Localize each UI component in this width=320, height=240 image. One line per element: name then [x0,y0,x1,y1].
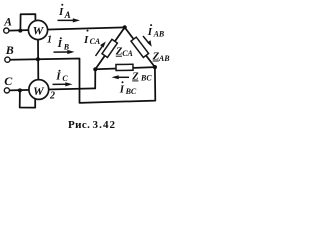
junction dot B voltage [36,57,40,61]
wattmeter W1 [28,20,47,39]
wire W2 voltage-coil bracket [20,90,36,107]
arrow I_A [58,18,81,22]
svg-text:B: B [63,42,70,51]
svg-text:W: W [33,24,45,38]
wire line C [10,88,96,90]
svg-text:I: I [147,26,153,38]
junction dot A bracket [18,29,22,33]
svg-text:3.42: 3.42 [93,119,117,131]
svg-text:I: I [58,6,64,18]
label I_CA [83,30,101,47]
svg-text:2: 2 [49,90,55,101]
label Z_CA [115,46,134,58]
svg-text:BC: BC [140,73,152,82]
arrow I_CA [96,42,106,57]
node B right vertex [153,65,157,69]
arrow I_B [54,50,75,54]
svg-text:CA: CA [90,37,101,46]
wire delta side BC [95,67,155,69]
wire voltage vertical W1-B-W2 [37,39,39,79]
node C left vertex [93,67,97,71]
svg-text:I: I [83,34,89,46]
wattmeter W2 [29,80,49,100]
svg-text:A: A [64,10,71,20]
svg-text:AB: AB [158,54,170,63]
svg-text:I: I [55,71,61,83]
junction dot C bracket [18,88,22,92]
impedance Z_CA box [102,39,117,57]
svg-text:C: C [4,74,13,88]
svg-text:I: I [57,38,63,50]
svg-text:AB: AB [153,30,165,39]
svg-text:Рис.: Рис. [68,119,90,131]
label I_C [55,70,68,84]
svg-text:W: W [33,84,45,98]
terminal B [5,57,10,62]
label Z_AB [152,51,171,63]
arrow I_AB [143,36,152,47]
impedance Z_BC box [116,64,133,70]
svg-text:B: B [5,43,14,57]
svg-text:CA: CA [122,49,133,58]
label Z_BC [131,72,152,83]
terminal C [4,88,9,93]
terminal A [4,28,9,33]
svg-text:A: A [3,16,12,28]
wire C riser to node [94,69,96,88]
svg-text:1: 1 [47,35,52,46]
svg-text:I: I [119,84,125,96]
svg-text:C: C [62,74,68,83]
wire delta side AB [125,27,155,67]
arrow I_BC [112,75,130,79]
label I_AB [147,24,165,38]
label I_BC [119,81,137,96]
node A apex [123,25,127,29]
impedance Z_AB box [131,37,149,57]
wire delta side CA [95,27,124,69]
arrow I_C [53,82,73,86]
label I_A [58,4,71,20]
wire line A [9,27,125,30]
wire W1 voltage-coil bracket [20,14,35,31]
label I_B [57,37,70,51]
wire line B [10,59,155,103]
svg-text:BC: BC [125,87,137,96]
